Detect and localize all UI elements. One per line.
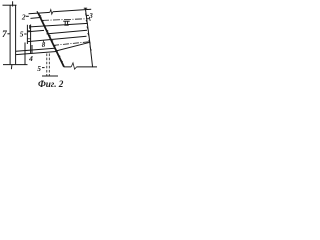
svg-text:5: 5 [20,30,24,39]
frame mast right pair [31,25,32,54]
frame rail bottom [16,52,56,55]
frame mast left pair [25,25,27,65]
conveyor chord 3 [30,23,88,27]
hidden shaft double dashed [47,54,50,76]
shaft end bar [42,75,58,77]
frame rail top [16,48,55,51]
post left vertical [9,5,11,64]
centerline upper (dash-dot) [42,19,89,21]
undercarriage break symbol [71,63,76,69]
centerline end tick [89,17,90,21]
svg-text:8: 8 [42,41,46,49]
leader 7 [7,33,9,35]
frame horizontal H1 [28,30,44,31]
conveyor bottom edge right [56,42,91,51]
post top bar [3,4,17,6]
conveyor second chord (short) [31,17,42,18]
right end strut [85,8,92,67]
diagonal hatch ticks [39,15,63,62]
leader 8 [43,40,45,42]
chord 3 left end tick [29,25,31,29]
right end ticks [85,14,91,51]
ground line [3,64,28,66]
main diagonal strut (double with hatch) [37,11,64,67]
mast rung lower [27,38,30,40]
svg-text:3: 3 [88,12,93,20]
svg-text:7: 7 [2,30,8,40]
leader 5 lower [42,67,45,69]
svg-text:2: 2 [21,12,26,21]
leader 5 upper [24,33,26,35]
leader 2 [26,15,29,17]
ground tick below [10,65,13,70]
mast rung upper [27,30,30,32]
break symbol top chord [50,10,53,15]
post right vertical [15,5,17,64]
conveyor chord 5 [28,36,87,41]
post top tick [12,1,14,6]
conveyor top chord [29,9,92,14]
conveyor chord 4 [47,30,88,34]
leader 3 [86,14,89,16]
svg-text:4: 4 [28,54,33,63]
undercarriage bottom line [64,66,97,68]
trolley symbol on centerline [63,21,69,25]
svg-text:5: 5 [37,64,41,73]
svg-text:Фиг. 2: Фиг. 2 [38,79,64,89]
centerline lower (dash-dot) [53,42,90,46]
